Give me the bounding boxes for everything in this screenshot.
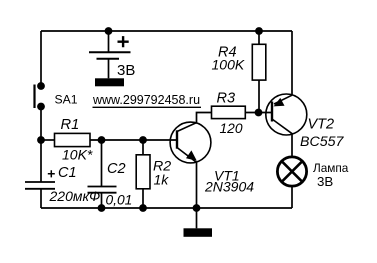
svg-text:2N3904: 2N3904: [204, 179, 254, 195]
svg-text:3В: 3В: [317, 174, 333, 189]
svg-text:www.299792458.ru: www.299792458.ru: [92, 93, 200, 107]
svg-text:C2: C2: [107, 161, 126, 177]
svg-text:0,01: 0,01: [106, 192, 133, 207]
svg-text:C1: C1: [58, 165, 77, 181]
svg-text:SA1: SA1: [55, 92, 78, 106]
svg-text:3В: 3В: [117, 62, 135, 79]
svg-text:BC557: BC557: [300, 134, 344, 150]
svg-text:Лампа: Лампа: [313, 161, 349, 175]
svg-text:100K: 100K: [212, 57, 245, 73]
svg-text:1k: 1k: [154, 172, 170, 188]
svg-text:R1: R1: [61, 117, 80, 133]
svg-text:R3: R3: [217, 90, 236, 106]
svg-text:10K*: 10K*: [62, 147, 93, 163]
svg-text:120: 120: [220, 121, 243, 136]
svg-text:VT2: VT2: [308, 117, 335, 133]
svg-text:220мкФ: 220мкФ: [49, 188, 101, 204]
